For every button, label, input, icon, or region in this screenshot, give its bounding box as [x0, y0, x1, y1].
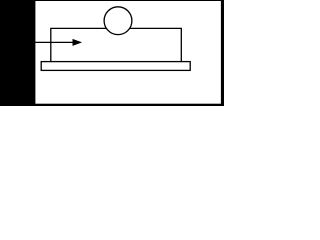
page background — [0, 0, 224, 106]
page border bottom — [0, 104, 224, 106]
force arrowhead — [73, 39, 83, 46]
page border right — [221, 0, 224, 106]
platform (base bar) — [41, 62, 190, 71]
page border top — [0, 0, 224, 1]
black scan margin bar (left) — [0, 0, 35, 106]
ball (circle on top of block) — [104, 7, 132, 35]
block (rectangle body) — [51, 28, 182, 61]
force arrow shaft — [36, 41, 74, 43]
